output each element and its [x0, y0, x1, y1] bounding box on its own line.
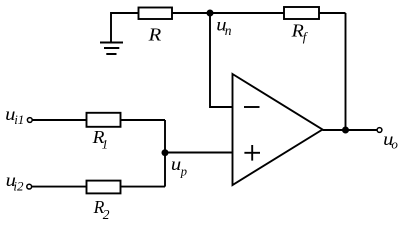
junction output node: [342, 127, 349, 134]
wire feedback right vertical: [345, 13, 347, 130]
node up: [162, 149, 187, 178]
wire top rail from ground riser to Rf corner: [111, 13, 346, 43]
svg-text:p: p: [180, 165, 187, 179]
wire ui1 to R1: [32, 119, 87, 121]
wire ui2 to R2: [32, 186, 87, 188]
input terminal ui2: [6, 170, 32, 193]
wire junction column vertical: [164, 120, 166, 187]
ground: [100, 43, 123, 55]
svg-text:2: 2: [103, 207, 110, 222]
wire up to non-inverting input: [165, 152, 233, 154]
svg-text:1: 1: [102, 137, 109, 152]
resistor Rf: [284, 7, 319, 44]
node un: [207, 10, 232, 39]
input terminal ui1: [5, 104, 32, 127]
svg-text:i2: i2: [13, 178, 24, 193]
svg-text:o: o: [391, 137, 398, 152]
wire R1 to junction column: [120, 119, 165, 121]
resistor R2: [87, 181, 121, 223]
wire R2 to junction column: [120, 186, 165, 188]
op-amp U1: [233, 74, 323, 185]
svg-text:i1: i1: [14, 112, 24, 127]
svg-text:R: R: [147, 24, 161, 44]
resistor R: [139, 8, 173, 45]
svg-text:n: n: [225, 23, 232, 38]
resistor R1: [87, 113, 121, 152]
wire output: [323, 129, 378, 131]
wire un to inverting input: [210, 13, 233, 107]
output terminal uo: [377, 128, 398, 152]
